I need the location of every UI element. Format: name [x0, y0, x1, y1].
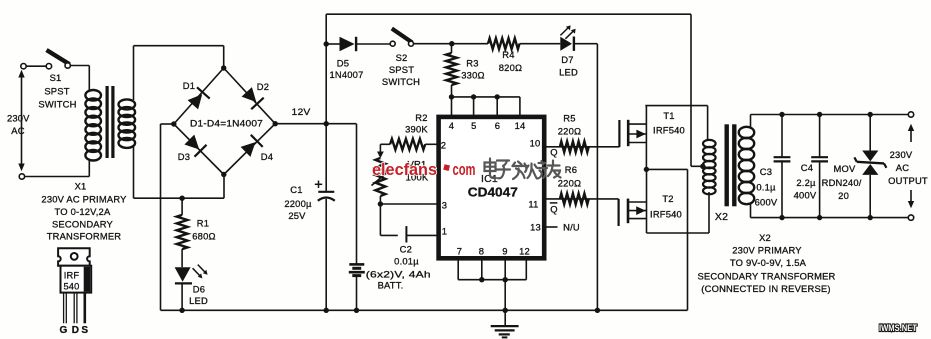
svg-text:AC: AC — [896, 162, 909, 173]
svg-text:400V: 400V — [794, 190, 817, 201]
svg-text:9: 9 — [502, 246, 507, 257]
svg-text:X2: X2 — [715, 211, 728, 223]
svg-text:230V: 230V — [7, 113, 30, 124]
svg-text:5: 5 — [471, 120, 476, 131]
svg-text:X2: X2 — [759, 232, 771, 243]
svg-text:230V AC PRIMARY: 230V AC PRIMARY — [41, 194, 127, 205]
svg-text:D7: D7 — [561, 54, 573, 65]
svg-text:G: G — [60, 325, 68, 336]
svg-text:SPST: SPST — [389, 64, 414, 75]
svg-text:2.2µ: 2.2µ — [796, 177, 816, 188]
svg-text:IRF540: IRF540 — [653, 125, 685, 136]
svg-text:D: D — [72, 325, 79, 336]
svg-text:390K: 390K — [405, 124, 428, 135]
svg-text:SECONDARY TRANSFORMER: SECONDARY TRANSFORMER — [697, 271, 835, 282]
svg-text:C2: C2 — [400, 244, 412, 255]
svg-text:S2: S2 — [396, 52, 408, 63]
svg-text:R2: R2 — [415, 112, 427, 123]
svg-text:0.01µ: 0.01µ — [394, 256, 419, 267]
svg-text:IRF540: IRF540 — [650, 209, 682, 220]
svg-text:R1: R1 — [197, 218, 209, 229]
svg-text:3: 3 — [442, 200, 447, 211]
svg-text:1N4007: 1N4007 — [329, 69, 363, 80]
svg-text:10: 10 — [530, 138, 541, 149]
svg-text:IRF: IRF — [64, 271, 80, 281]
svg-text:600V: 600V — [755, 197, 778, 208]
svg-text:IWMS.NET: IWMS.NET — [879, 323, 917, 334]
svg-text:R5: R5 — [563, 113, 575, 124]
svg-text:BATT.: BATT. — [378, 280, 404, 291]
svg-text:7: 7 — [457, 246, 462, 257]
svg-text:SPST: SPST — [44, 86, 69, 97]
svg-text:LED: LED — [559, 67, 578, 78]
svg-text:R6: R6 — [565, 164, 577, 175]
svg-text:SWITCH: SWITCH — [382, 76, 420, 87]
svg-text:2: 2 — [441, 140, 446, 151]
svg-text:OUTPUT: OUTPUT — [888, 175, 928, 186]
svg-text:TO 0-12V,2A: TO 0-12V,2A — [55, 206, 111, 217]
svg-text:6: 6 — [495, 120, 500, 131]
svg-text:AC: AC — [11, 125, 24, 136]
svg-text:N/U: N/U — [563, 222, 580, 233]
svg-text:C3: C3 — [760, 166, 772, 177]
svg-text:(6x2)V, 4Ah: (6x2)V, 4Ah — [366, 269, 431, 280]
svg-text:MOV: MOV — [834, 163, 857, 174]
svg-text:820Ω: 820Ω — [499, 62, 522, 73]
svg-text:D1-D4=1N4007: D1-D4=1N4007 — [190, 118, 263, 129]
svg-text:T2: T2 — [662, 193, 673, 204]
svg-text:TRANSFORMER: TRANSFORMER — [47, 231, 122, 242]
svg-text:8: 8 — [479, 246, 484, 257]
svg-text:com: com — [453, 160, 476, 179]
svg-text:RDN240/: RDN240/ — [822, 177, 862, 188]
svg-text:T1: T1 — [663, 110, 674, 121]
svg-text:D3: D3 — [178, 151, 190, 162]
svg-text:D4: D4 — [261, 151, 273, 162]
svg-text:20: 20 — [838, 190, 849, 201]
svg-text:12: 12 — [519, 246, 530, 257]
svg-text:CD4047: CD4047 — [468, 186, 518, 200]
svg-text:4: 4 — [449, 120, 454, 131]
svg-text:2200µ: 2200µ — [284, 198, 312, 209]
svg-text:R4: R4 — [502, 49, 514, 60]
svg-text:S1: S1 — [50, 72, 62, 83]
svg-text:TO 9V-0-9V, 1.5A: TO 9V-0-9V, 1.5A — [730, 257, 807, 268]
svg-text:25V: 25V — [288, 210, 306, 221]
svg-text:1: 1 — [442, 226, 447, 237]
svg-text:220Ω: 220Ω — [558, 126, 581, 137]
svg-text:540: 540 — [63, 282, 79, 292]
svg-text:330Ω: 330Ω — [461, 70, 484, 81]
svg-text:D1: D1 — [183, 80, 195, 91]
svg-text:680Ω: 680Ω — [192, 231, 215, 242]
svg-text:12V: 12V — [292, 106, 312, 117]
svg-text:S: S — [81, 325, 88, 336]
svg-text:SECONDARY: SECONDARY — [52, 219, 114, 230]
svg-text:LED: LED — [189, 295, 208, 306]
svg-text:(CONNECTED IN REVERSE): (CONNECTED IN REVERSE) — [701, 283, 830, 294]
svg-text:D2: D2 — [257, 81, 269, 92]
svg-text:elecfans: elecfans — [372, 160, 437, 179]
svg-text:230V: 230V — [890, 149, 913, 160]
svg-text:R3: R3 — [466, 58, 478, 69]
svg-text:X1: X1 — [75, 181, 87, 192]
svg-text:C1: C1 — [290, 184, 302, 195]
svg-text:C4: C4 — [801, 162, 813, 173]
svg-text:0.1µ: 0.1µ — [756, 182, 776, 193]
svg-text:D6: D6 — [193, 284, 205, 295]
svg-text:230V PRIMARY: 230V PRIMARY — [732, 245, 802, 256]
svg-text:11: 11 — [528, 199, 538, 210]
svg-text:D5: D5 — [337, 58, 349, 69]
svg-text:Q: Q — [550, 147, 558, 158]
svg-text:220Ω: 220Ω — [558, 178, 581, 189]
svg-text:Q: Q — [550, 204, 558, 215]
svg-text:13: 13 — [530, 222, 541, 233]
svg-text:SWITCH: SWITCH — [38, 99, 76, 110]
svg-text:14: 14 — [515, 120, 526, 131]
